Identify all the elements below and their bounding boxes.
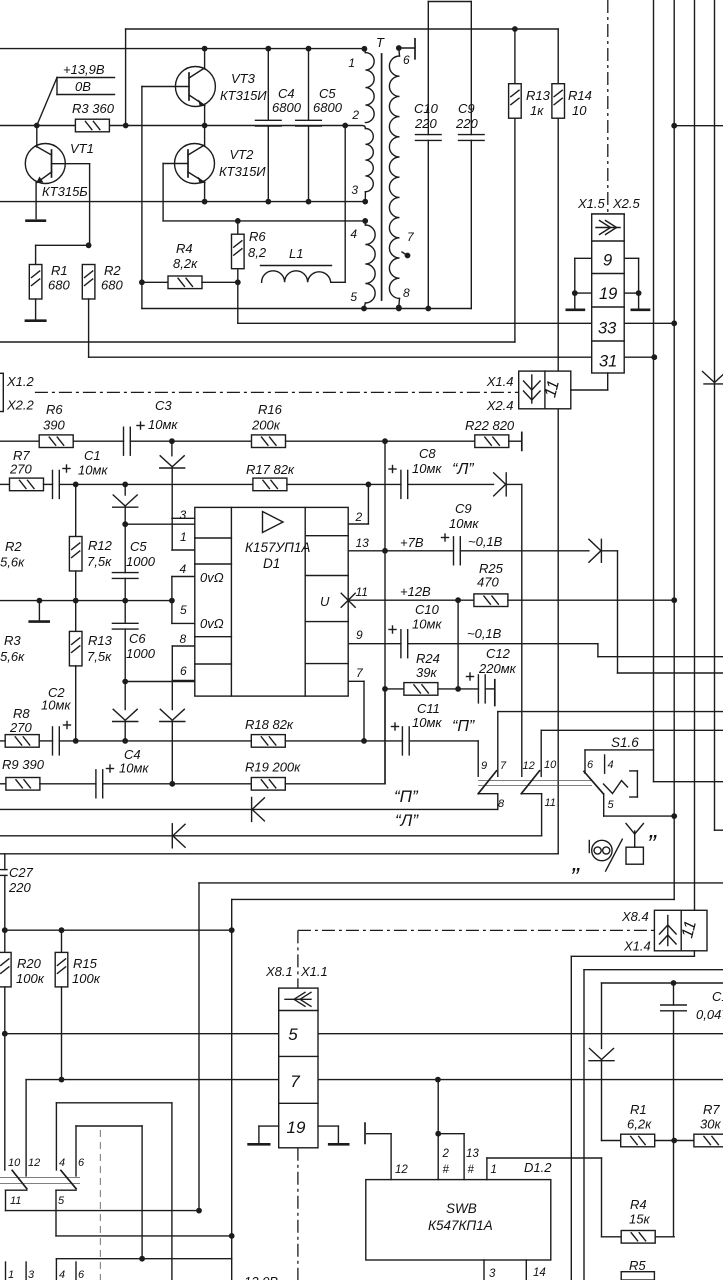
node: pin13 joins <box>382 548 388 554</box>
capacitor C9 10mk (pin13 row) <box>385 550 454 552</box>
switch mechanical bar <box>478 780 592 782</box>
svg-text:+13,9В: +13,9В <box>63 62 105 77</box>
svg-text:220: 220 <box>455 116 478 131</box>
svg-text:100к: 100к <box>16 971 45 986</box>
node: R13 bottom <box>73 738 79 744</box>
wire: row1 contact 4 feed <box>56 1102 171 1104</box>
svg-text:10мк: 10мк <box>148 417 178 432</box>
diode (right) on C8 wire <box>494 473 506 485</box>
symbol: antenna/radio <box>626 847 643 864</box>
svg-text:10мк: 10мк <box>119 761 149 776</box>
svg-text:7: 7 <box>500 760 507 772</box>
transformer left winding upper (pins 1-2) <box>365 53 374 123</box>
node: C5-branch <box>122 482 128 488</box>
svg-text:6: 6 <box>587 759 594 771</box>
long vertical x=714.5 with down diode <box>714 0 716 830</box>
svg-text:S1.6: S1.6 <box>611 735 639 750</box>
svg-text:X2.5: X2.5 <box>612 196 641 211</box>
X8.4 chevron-up symbol <box>667 916 669 946</box>
svg-text:C5: C5 <box>319 86 336 101</box>
D1.2 pin 3 <box>483 1260 485 1280</box>
diode (right) on pin13 row <box>589 539 601 551</box>
svg-text:6: 6 <box>78 1157 85 1169</box>
wire: x=385 feedback net vertical <box>384 441 386 784</box>
transistor VT2 KT315I <box>175 144 215 184</box>
node: pin 33 to vertical <box>671 320 677 326</box>
svg-text:12: 12 <box>28 1157 40 1169</box>
svg-text:R1: R1 <box>51 263 68 278</box>
svg-text:6: 6 <box>180 664 187 678</box>
wire: R2 bottom to 31-line <box>88 299 90 357</box>
svg-text:С1: С1 <box>712 989 723 1004</box>
node: R12 bottom <box>73 598 79 604</box>
wire: full-width line y=882.9 <box>199 882 723 884</box>
svg-text:10мк: 10мк <box>449 516 479 531</box>
svg-text:C10: C10 <box>414 101 439 116</box>
node: pin2 riser <box>366 482 372 488</box>
ground: X8.1 pin19 left <box>259 1125 279 1127</box>
svg-text:#: # <box>443 1164 450 1176</box>
svg-text:R20: R20 <box>17 956 42 971</box>
svg-text:C3: C3 <box>155 398 172 413</box>
svg-text:9: 9 <box>603 252 612 270</box>
node: C4 bottom <box>265 199 271 205</box>
svg-text:R4: R4 <box>630 1197 647 1212</box>
svg-text:1000: 1000 <box>126 554 156 569</box>
svg-text:10мк: 10мк <box>412 715 442 730</box>
D1.2 pin 12 with terminator <box>390 1134 392 1180</box>
node: pin11-row joins x=199 <box>196 1208 202 1214</box>
svg-text:30к: 30к <box>700 1117 721 1132</box>
capacitor C3 10mk <box>123 427 125 455</box>
wire: contact 10 row y=730.3 to page edge <box>541 729 723 731</box>
svg-text:R6: R6 <box>249 229 266 244</box>
D1.2 pin 14 <box>525 1260 527 1280</box>
wire: y=969.7 from right <box>584 969 723 971</box>
node: pins 2/13 bridge <box>435 1131 441 1137</box>
svg-text:C9: C9 <box>458 101 475 116</box>
connector X1.4/X2.4 box <box>519 371 571 409</box>
resistor R1 680 <box>35 245 37 264</box>
wire: bus y=125.5 from left edge through R3 to transformer pin 2 <box>0 125 345 127</box>
switch row1 mechanical bars <box>0 1177 80 1179</box>
svg-text:1: 1 <box>8 1269 14 1280</box>
dash-dot X8.1 divider <box>298 929 655 931</box>
wire: X2.4 pin11 link to X2.5 pin31 <box>571 389 608 391</box>
wire: C9/R24 vertical x=458.1 <box>457 600 459 689</box>
svg-text:31: 31 <box>599 353 617 371</box>
node: pins 8/6 branch joins <box>169 781 175 787</box>
svg-text:200к: 200к <box>251 418 281 433</box>
node: R15 top <box>59 927 65 933</box>
svg-text:8,2к: 8,2к <box>173 256 198 271</box>
svg-text:R14: R14 <box>568 88 592 103</box>
wire: top bus y=29 from VT3-collector riser to R14 <box>126 28 559 30</box>
node: pin 7 riser <box>361 738 367 744</box>
X1.4 chevron-down symbol <box>531 375 533 403</box>
svg-text:VT3: VT3 <box>231 71 256 86</box>
node: pin2 tap junction <box>342 123 348 129</box>
long vertical x=694.5 <box>694 0 696 910</box>
svg-text:0vΩ: 0vΩ <box>200 616 224 631</box>
transformer left winding lower (pins 4-5) <box>364 221 366 225</box>
symbol: headphones jack <box>592 840 612 860</box>
svg-text:D1: D1 <box>263 556 280 571</box>
svg-text:1: 1 <box>180 530 187 544</box>
X8.1 arrow symbol (left chevrons) <box>285 998 311 1000</box>
wire: VT1 base to R1/R2 node <box>89 164 91 246</box>
dashed mechanical link <box>99 1130 101 1280</box>
ground on bias bus <box>38 601 40 621</box>
pin 7 tap <box>402 252 408 256</box>
svg-text:C9: C9 <box>455 501 472 516</box>
svg-text:X1.5: X1.5 <box>577 196 606 211</box>
wire: pin9 step down then right to page edge <box>597 644 599 657</box>
svg-text:“П”: “П” <box>452 718 475 735</box>
wire: X8.1 pin5 row y=1033.7 <box>5 1033 279 1035</box>
svg-text:5: 5 <box>180 603 187 617</box>
diode (left) on P-row <box>252 798 264 810</box>
svg-text:C6: C6 <box>129 631 146 646</box>
svg-text:КТ315Б: КТ315Б <box>42 184 88 199</box>
svg-text:C1: C1 <box>84 448 101 463</box>
node: riser x=142.1 <box>139 1256 145 1262</box>
D1 pin 5 <box>172 622 195 624</box>
svg-text:X1.4: X1.4 <box>486 374 514 389</box>
switch group 1: contacts 9/7, pin 8 <box>497 712 499 777</box>
svg-text:1000: 1000 <box>126 646 156 661</box>
wire: L1 right to transformer pin 2 <box>331 281 346 283</box>
svg-text:2: 2 <box>442 1148 450 1160</box>
pin 3 tap <box>364 192 366 202</box>
svg-text:R6: R6 <box>46 402 63 417</box>
svg-text:4: 4 <box>180 562 187 576</box>
wire: common bus y=201.6 to transformer pin 3 <box>0 201 365 203</box>
svg-text:~0,1В: ~0,1В <box>468 534 503 549</box>
svg-text:6: 6 <box>78 1269 85 1280</box>
svg-text:39к: 39к <box>416 665 437 680</box>
capacitor C4 6800 <box>267 49 269 121</box>
diode (down) x=601.5 <box>590 1049 602 1060</box>
transistor VT3 KT315I <box>175 67 215 107</box>
svg-text:R24: R24 <box>416 651 440 666</box>
svg-text:2: 2 <box>351 108 359 122</box>
dash-dot divider X1.2/X2.2 row <box>35 391 519 393</box>
resistor R6 8,2 (vertical) <box>237 221 239 234</box>
svg-text:R3 360: R3 360 <box>72 101 115 116</box>
svg-text:T: T <box>376 35 385 50</box>
chassis tap at pin 6 <box>399 47 415 49</box>
switch group 2: contacts 12/10, pin 11 <box>540 730 542 776</box>
svg-text:10мк: 10мк <box>78 463 108 478</box>
svg-text:1: 1 <box>348 56 355 70</box>
D1.2 pin 13 <box>438 1133 464 1135</box>
svg-text:C5: C5 <box>130 539 147 554</box>
transformer right winding (pins 6-7-8) <box>398 48 401 56</box>
svg-text:270: 270 <box>9 720 32 735</box>
svg-text:390: 390 <box>43 418 65 433</box>
svg-text:R2: R2 <box>104 263 121 278</box>
wire: branch y=125.7 to right edge <box>674 125 723 127</box>
resistor R14 10 (vertical) <box>557 29 559 84</box>
D1 pin 4 <box>172 576 195 578</box>
node: C6 to pin 6 wire <box>122 679 128 685</box>
svg-text:”: ” <box>647 829 657 859</box>
svg-text:7,5к: 7,5к <box>87 554 112 569</box>
svg-text:6800: 6800 <box>272 100 302 115</box>
long vertical x=674.2 <box>673 0 675 899</box>
svg-text:“Л”: “Л” <box>452 461 474 478</box>
svg-text:X1.4: X1.4 <box>623 939 651 954</box>
X1.5/X2.5 connector box <box>592 214 625 373</box>
capacitor C5 6800 <box>308 49 310 121</box>
wire: VT3 base feed riser x=141.9 <box>141 87 143 283</box>
svg-text:270: 270 <box>9 462 32 477</box>
capacitor C2 10mk <box>52 727 54 755</box>
svg-text:14: 14 <box>533 1267 546 1279</box>
svg-text:~0,1В: ~0,1В <box>467 626 502 641</box>
wire: P-row y=809.4 <box>0 808 498 810</box>
D1 pin 6 <box>172 679 195 681</box>
dash-dot section divider (top) <box>607 0 609 213</box>
svg-text:C4: C4 <box>278 86 295 101</box>
wire: corner down then right to page edge <box>617 551 619 673</box>
svg-text:9: 9 <box>356 628 363 642</box>
node: joins long-vertical return <box>229 927 235 933</box>
svg-text:R15: R15 <box>73 956 98 971</box>
svg-text:КТ315И: КТ315И <box>219 164 266 179</box>
svg-text:X8.1: X8.1 <box>265 964 293 979</box>
svg-text:U: U <box>320 594 330 609</box>
pin 2 tap <box>345 126 365 129</box>
svg-text:33: 33 <box>598 320 617 338</box>
capacitor C4 10mk (lower) <box>95 770 97 798</box>
switch row1 blades <box>12 1170 27 1188</box>
svg-text:8: 8 <box>180 632 187 646</box>
wire: pins 8/6 vertical down to C4 node <box>171 680 173 709</box>
svg-text:10: 10 <box>8 1157 21 1169</box>
node: ground branch <box>37 598 43 604</box>
node: R16-right / R22 / pin13 net <box>382 438 388 444</box>
svg-text:7: 7 <box>290 1072 300 1091</box>
svg-text:6,2к: 6,2к <box>627 1117 652 1132</box>
svg-text:R8: R8 <box>13 706 30 721</box>
D1 pin 7 <box>348 680 364 682</box>
pin 1 <box>362 46 368 52</box>
svg-text:1к: 1к <box>530 103 544 118</box>
wire: R13 bottom line y=342 <box>0 341 515 343</box>
svg-text:”: ” <box>570 862 580 892</box>
svg-text:4: 4 <box>59 1269 65 1280</box>
svg-text:13: 13 <box>356 536 370 550</box>
svg-text:R1: R1 <box>630 1102 647 1117</box>
svg-text:220: 220 <box>414 116 437 131</box>
svg-text:6: 6 <box>403 53 410 67</box>
svg-text:4: 4 <box>608 759 614 771</box>
svg-text:2: 2 <box>355 510 363 524</box>
node: C4 top <box>265 46 271 52</box>
ground: R1 bottom <box>35 299 37 320</box>
wire: supply bus y=48.6 left edge to transformer pin 1 <box>0 48 364 50</box>
node: C1/R12 <box>73 482 79 488</box>
svg-text:3: 3 <box>489 1268 496 1280</box>
node: VT3 collector junction <box>202 46 208 52</box>
svg-text:4: 4 <box>59 1157 65 1169</box>
diode (left) on L-row <box>173 824 185 836</box>
D1 pin 11 <box>348 599 458 601</box>
wire: C2/R18 row y=740.9 <box>0 740 5 742</box>
svg-text:К547КП1А: К547КП1А <box>428 1218 493 1233</box>
D1 pin 1 <box>172 549 195 551</box>
svg-text:11: 11 <box>356 585 368 599</box>
diode (down) on C6 branch <box>124 682 126 710</box>
svg-text:0,047: 0,047 <box>696 1007 723 1022</box>
resistor R13 1k (vertical) <box>514 29 516 84</box>
node: C5/C6 <box>122 598 128 604</box>
node: pin 31 to vertical <box>651 354 657 360</box>
svg-text:3: 3 <box>28 1269 35 1280</box>
svg-text:X8.4: X8.4 <box>621 909 649 924</box>
svg-text:0В: 0В <box>75 79 91 94</box>
connector X8.4/X1.4 box <box>654 910 707 951</box>
wire: X1.4-11 bottom exit <box>693 951 695 957</box>
X2.5 ground stubs right <box>624 257 638 259</box>
capacitor C10 220 <box>427 2 429 135</box>
node: C3/R16 <box>169 438 175 444</box>
svg-text:5: 5 <box>288 1025 298 1044</box>
pin 8 <box>396 305 402 311</box>
svg-text:R2: R2 <box>5 539 22 554</box>
svg-text:4: 4 <box>350 227 357 241</box>
connector X8.1/X1.1 box <box>279 988 318 1148</box>
svg-text:5,6к: 5,6к <box>0 649 25 664</box>
transistor VT1 KT315B <box>25 144 65 184</box>
wire: bus y=308.5 pins 5/8, C10, C9 <box>141 282 143 308</box>
svg-text:“П”: “П” <box>394 787 419 806</box>
svg-text:10: 10 <box>544 759 557 771</box>
svg-text:10: 10 <box>572 103 587 118</box>
svg-text:VT2: VT2 <box>230 147 255 162</box>
node: pin5 <box>361 306 367 312</box>
node: C5 bottom <box>306 199 312 205</box>
node: chip pins 4/5 <box>169 598 175 604</box>
svg-text:5: 5 <box>608 799 615 811</box>
node: R4 left <box>139 279 145 285</box>
svg-text:SWB: SWB <box>446 1201 477 1216</box>
svg-text:C27: C27 <box>9 865 34 880</box>
svg-text:X2.2: X2.2 <box>6 398 35 413</box>
wire: contact 7 row y=711.6 to page edge <box>498 711 723 713</box>
svg-text:R4: R4 <box>176 241 193 256</box>
op-amp D1 K157UP1A outer box <box>195 507 348 696</box>
node: R24 right / C12 <box>455 686 461 692</box>
svg-text:10мк: 10мк <box>41 698 71 713</box>
capacitor C8 10mk <box>368 483 401 485</box>
D1 right column cells <box>305 535 348 537</box>
svg-text:0vΩ: 0vΩ <box>200 570 224 585</box>
transformer core <box>381 54 383 300</box>
svg-text:К157УП1А: К157УП1А <box>245 540 310 555</box>
switch group 3: contacts 6/4, pin 5 <box>584 750 586 773</box>
resistor R2 680 <box>82 265 95 300</box>
node: pin5 row joins <box>671 813 677 819</box>
node: C6 diode bottom <box>122 738 128 744</box>
long vertical x=653.5 <box>653 0 655 782</box>
svg-text:13,0В: 13,0В <box>244 1274 278 1280</box>
svg-text:19: 19 <box>287 1118 306 1137</box>
svg-text:680: 680 <box>101 278 123 293</box>
svg-text:5,6к: 5,6к <box>0 555 25 570</box>
node: VT2 emitter junction <box>202 199 208 205</box>
node: R4/R6/L1 <box>235 279 241 285</box>
X2.5 ground stubs left <box>575 257 592 259</box>
svg-text:+12В: +12В <box>400 584 431 599</box>
D1 pin 3 <box>172 517 195 519</box>
svg-text:C11: C11 <box>417 701 440 716</box>
svg-text:3: 3 <box>351 183 358 197</box>
svg-text:8: 8 <box>403 286 410 300</box>
svg-text:VT1: VT1 <box>70 141 94 156</box>
diode (down) under C3 node <box>171 441 173 456</box>
D1 left column cells <box>195 537 232 539</box>
svg-text:15к: 15к <box>629 1212 650 1227</box>
node: R6 top <box>235 218 241 224</box>
node: D12 riser joins pin7 row <box>435 1077 441 1083</box>
D1 pin 13 <box>348 550 385 552</box>
svg-text:680: 680 <box>48 278 70 293</box>
wire: y=930.2 row <box>5 929 232 931</box>
node: R3 right junction <box>123 123 129 129</box>
wire: to chip pins 3/1 <box>125 523 195 525</box>
svg-text:R3: R3 <box>4 633 21 648</box>
svg-text:#: # <box>468 1164 475 1176</box>
wire: leader diagonal to node <box>37 78 57 126</box>
D1.2 pin 2 <box>437 1080 439 1180</box>
svg-text:D1.2: D1.2 <box>524 1160 552 1175</box>
ground: VT1 emitter <box>25 219 46 222</box>
svg-text:220мк: 220мк <box>478 661 517 676</box>
D1 pin 2 <box>348 523 368 525</box>
switch spring and latch bracket <box>604 781 628 794</box>
svg-text:R16: R16 <box>258 402 283 417</box>
wire: pin1 riser to R4 <box>601 1158 603 1237</box>
node: R3 left junction <box>34 123 40 129</box>
node: R1/R2 top <box>86 242 92 248</box>
node: R1/R7/cap <box>671 1138 677 1144</box>
svg-text:X1.2: X1.2 <box>6 374 35 389</box>
svg-text:5: 5 <box>350 290 357 304</box>
svg-text:R13: R13 <box>88 633 113 648</box>
wire: row2 contact feed y=1258.7 <box>56 1258 231 1260</box>
node: pin5-row joins x=231.7 <box>229 1233 235 1239</box>
node: pin8 <box>396 306 402 312</box>
svg-text:X1.1: X1.1 <box>300 964 328 979</box>
wire: X1.4-11 row y=853.8 <box>0 853 558 855</box>
ground: X8.1 pin19 right <box>318 1125 338 1127</box>
svg-text:13: 13 <box>466 1148 479 1160</box>
svg-text:7,5к: 7,5к <box>87 649 112 664</box>
svg-text:12: 12 <box>395 1164 408 1176</box>
svg-text:R22 820: R22 820 <box>465 418 515 433</box>
svg-text:10мк: 10мк <box>412 617 442 632</box>
svg-text:12: 12 <box>523 760 535 772</box>
svg-text:470: 470 <box>477 575 499 590</box>
node: R24 left <box>382 686 388 692</box>
wire: R4-node down to 33-line <box>237 282 239 323</box>
svg-text:6800: 6800 <box>313 100 343 115</box>
wire: to switch contact 12 <box>521 484 523 776</box>
slash divider <box>606 839 623 871</box>
